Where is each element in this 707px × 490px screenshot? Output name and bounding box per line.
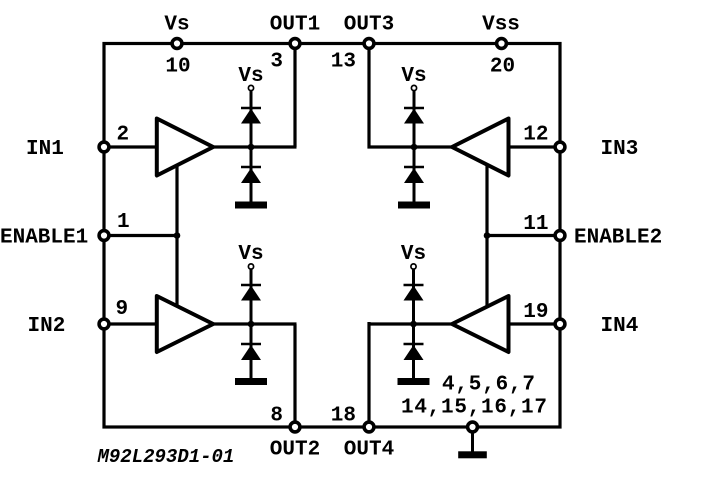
ground bar chain B [398,202,430,209]
diode D4 [404,168,424,183]
svg-text:Vs: Vs [401,65,426,88]
chip outline [104,44,560,428]
wire IN2 input [104,322,156,325]
wire OUT4 riser [367,322,370,427]
svg-text:18: 18 [331,405,356,428]
diode D7 cathode bar [404,284,424,287]
clamp diode chain B (top-right) [398,85,430,208]
svg-text:IN1: IN1 [26,138,64,161]
node C junction dot [248,321,255,328]
diode D5 [241,286,261,301]
svg-text:Vs: Vs [238,65,263,88]
diode D3 [404,109,424,124]
diode D1 [241,109,261,124]
wire Vs stub chain A [250,91,253,147]
svg-text:4,5,6,7: 4,5,6,7 [442,374,535,397]
clamp diode chain A (top-left) [235,85,267,208]
svg-text:Vss: Vss [482,14,520,37]
diode D5 cathode bar [241,284,261,287]
wire buffer4 output to node D [368,322,452,325]
GND terminal [468,422,478,432]
svg-text:IN2: IN2 [28,315,66,338]
wire IN4 input [510,322,561,325]
pin 20 terminal (Vss) [497,39,507,49]
Vs terminal circle chain B [411,85,416,90]
wire chain C to ground [250,324,253,379]
svg-text:9: 9 [116,298,129,321]
svg-text:Vs: Vs [401,243,426,266]
svg-text:OUT2: OUT2 [270,439,320,462]
svg-text:13: 13 [331,50,356,73]
svg-text:11: 11 [523,213,548,236]
svg-text:ENABLE1: ENABLE1 [0,227,88,250]
ground bar GND [458,451,487,458]
svg-text:ENABLE2: ENABLE2 [574,227,662,250]
ground bar chain A [235,202,267,209]
svg-text:IN3: IN3 [601,138,639,161]
Vs terminal circle chain D [411,264,416,269]
diode D6 cathode bar [241,343,261,346]
diode D7 [404,286,424,301]
wire ENABLE2 vertical [485,161,488,309]
svg-text:19: 19 [523,301,548,324]
ground bar chain D [398,378,430,385]
wire ENABLE2 horizontal [487,234,560,237]
svg-text:10: 10 [165,56,190,79]
diode D1 cathode bar [241,107,261,110]
svg-text:OUT3: OUT3 [344,14,394,37]
pin 2 terminal (IN1) [99,142,109,152]
node A junction dot [248,144,255,151]
diode D8 [404,345,424,360]
pin 9 terminal (IN2) [99,319,109,329]
svg-text:14,15,16,17: 14,15,16,17 [401,397,547,420]
pin 10 terminal (Vs) [172,39,182,49]
diode D3 cathode bar [404,107,424,110]
svg-text:3: 3 [270,50,283,73]
junction dot enable1 [174,232,181,239]
wire OUT3 riser [367,44,370,149]
diode D8 cathode bar [404,343,424,346]
svg-text:Vs: Vs [238,243,263,266]
wire Vs stub chain C [250,270,253,325]
wire GND stub [471,431,474,452]
diode D6 [241,345,261,360]
svg-text:20: 20 [490,56,515,79]
wire chain B to ground [413,147,416,202]
wire ENABLE1 vertical [175,161,178,309]
pin 3 terminal (OUT1) [290,39,300,49]
wire IN3 input [510,145,561,148]
wire Vs stub chain D [412,270,415,325]
pin 19 terminal (IN4) [555,319,565,329]
svg-text:8: 8 [270,405,283,428]
wire chain D to ground [412,324,415,379]
wire OUT1 riser [293,44,296,148]
wire buffer3 output to node B [368,145,452,148]
svg-text:1: 1 [117,211,130,234]
node D junction dot [410,321,417,328]
node B junction dot [411,144,418,151]
svg-text:2: 2 [117,124,130,147]
diode D4 cathode bar [404,166,424,169]
clamp diode chain D (bottom-right) [398,264,430,385]
pin 11 terminal (ENABLE2) [555,231,565,241]
pin 18 terminal (OUT4) [364,422,374,432]
wire IN1 input [104,145,156,148]
ground bar chain C [235,378,267,385]
svg-text:IN4: IN4 [601,315,639,338]
wire Vs stub chain B [413,91,416,147]
wire buffer2 output to node C [214,322,297,325]
pin 12 terminal (IN3) [555,142,565,152]
buffer A2 (IN2) [157,296,213,352]
wire chain A to ground [250,147,253,202]
wire buffer1 output to node A [214,145,297,148]
junction dot enable2 [484,232,491,239]
Vs terminal circle chain A [248,85,253,90]
wire OUT2 riser [293,324,296,427]
buffer A4 (IN4) [452,296,509,352]
clamp diode chain C (bottom-left) [235,264,267,385]
wire ENABLE1 horizontal [104,234,177,237]
buffer A3 (IN3) [452,119,509,176]
pin 13 terminal (OUT3) [364,39,374,49]
pin 1 terminal (ENABLE1) [99,231,109,241]
buffer A1 (IN1) [157,119,213,176]
diode D2 cathode bar [241,166,261,169]
svg-text:12: 12 [523,124,548,147]
svg-text:OUT4: OUT4 [344,439,394,462]
pin 8 terminal (OUT2) [290,422,300,432]
diode D2 [241,168,261,183]
ground symbol at GND pin [458,431,487,458]
svg-text:OUT1: OUT1 [270,14,320,37]
svg-text:Vs: Vs [164,14,189,37]
svg-text:M92L293D1-01: M92L293D1-01 [97,446,235,468]
Vs terminal circle chain C [248,264,253,269]
